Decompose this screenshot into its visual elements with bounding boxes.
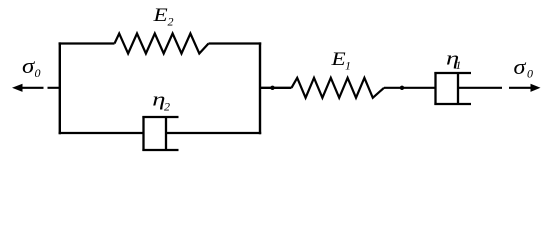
dashpot eta2 xyxy=(142,116,178,151)
label E1 xyxy=(330,48,351,73)
svg-text:σ: σ xyxy=(514,55,528,80)
svg-text:E: E xyxy=(152,4,167,26)
svg-text:0: 0 xyxy=(35,66,41,80)
svg-text:2: 2 xyxy=(164,100,170,114)
left stress label sigma_0 xyxy=(22,54,41,80)
wire: right vertical of parallel branch xyxy=(259,42,261,134)
junction node B xyxy=(400,86,404,90)
wire: series lead from box to spring E1 xyxy=(260,87,292,89)
svg-text:2: 2 xyxy=(168,15,174,29)
spring E1 xyxy=(292,78,385,98)
svg-text:0: 0 xyxy=(527,67,533,81)
right stress label sigma_0 xyxy=(514,55,534,81)
svg-text:E: E xyxy=(330,48,345,70)
svg-text:1: 1 xyxy=(455,58,461,72)
wire: dashpot eta1 rod xyxy=(458,87,502,89)
wire: spring E1 to dashpot eta1 xyxy=(384,87,437,89)
wire: stub from arrow to parallel box xyxy=(48,87,60,89)
right stress arrow xyxy=(509,84,541,92)
svg-text:1: 1 xyxy=(345,59,351,73)
label eta2 xyxy=(152,88,170,113)
wire: dashpot eta2 rod to right vertical xyxy=(166,132,261,134)
spring E2 xyxy=(115,34,209,54)
wire: top branch left lead xyxy=(59,42,115,44)
wire: bottom branch left lead xyxy=(59,132,145,134)
junction node A xyxy=(270,86,274,90)
wire: left vertical of parallel branch xyxy=(59,42,61,134)
wire: top branch right lead xyxy=(209,42,262,44)
label eta1 xyxy=(446,47,461,72)
dashpot eta1 xyxy=(434,72,471,105)
label E2 xyxy=(152,4,173,29)
left stress arrow xyxy=(12,84,44,92)
